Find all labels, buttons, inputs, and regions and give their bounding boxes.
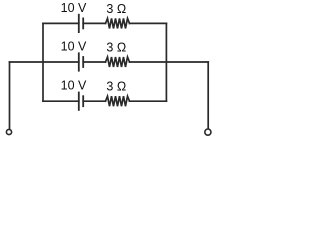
resistor R1 zigzag [106,18,130,28]
svg-text:3 Ω: 3 Ω [106,80,126,94]
wire left bus (inner-left vertical) [42,23,44,101]
wire row3 battery V3 to resistor R3 [83,100,105,102]
svg-text:3 Ω: 3 Ω [106,40,126,54]
svg-text:10 V: 10 V [61,1,87,15]
battery V2 short plate [82,57,84,67]
battery V1 short plate [82,18,84,28]
battery V2 long plate [78,53,80,70]
wire row2 left (to battery V2) [10,61,79,63]
battery V3 short plate [82,96,84,106]
svg-text:10 V: 10 V [61,39,87,53]
wire row3 right (resistor R3 to node) [130,100,167,102]
terminal left (open circle) [6,129,11,134]
wire row1 right (resistor R1 to node) [130,22,167,24]
resistor R3 zigzag [106,96,130,106]
wire row2 battery V2 to resistor R2 [83,61,105,63]
wire row1 left (to battery V1) [43,22,79,24]
wire outer-left vertical to terminal [9,62,11,129]
terminal right (open circle) [205,129,211,135]
resistor R2 zigzag [106,57,130,67]
wire row2 right (resistor R2 to node) [130,61,209,63]
svg-text:3 Ω: 3 Ω [106,2,126,16]
svg-text:10 V: 10 V [61,79,87,93]
wire row3 left (to battery V3) [43,100,79,102]
battery V3 long plate [78,93,80,110]
wire outer-right vertical to terminal [207,62,209,128]
battery V1 long plate [78,15,80,32]
wire right bus (inner-right vertical) [165,23,167,101]
wire row1 battery V1 to resistor R1 [83,22,105,24]
